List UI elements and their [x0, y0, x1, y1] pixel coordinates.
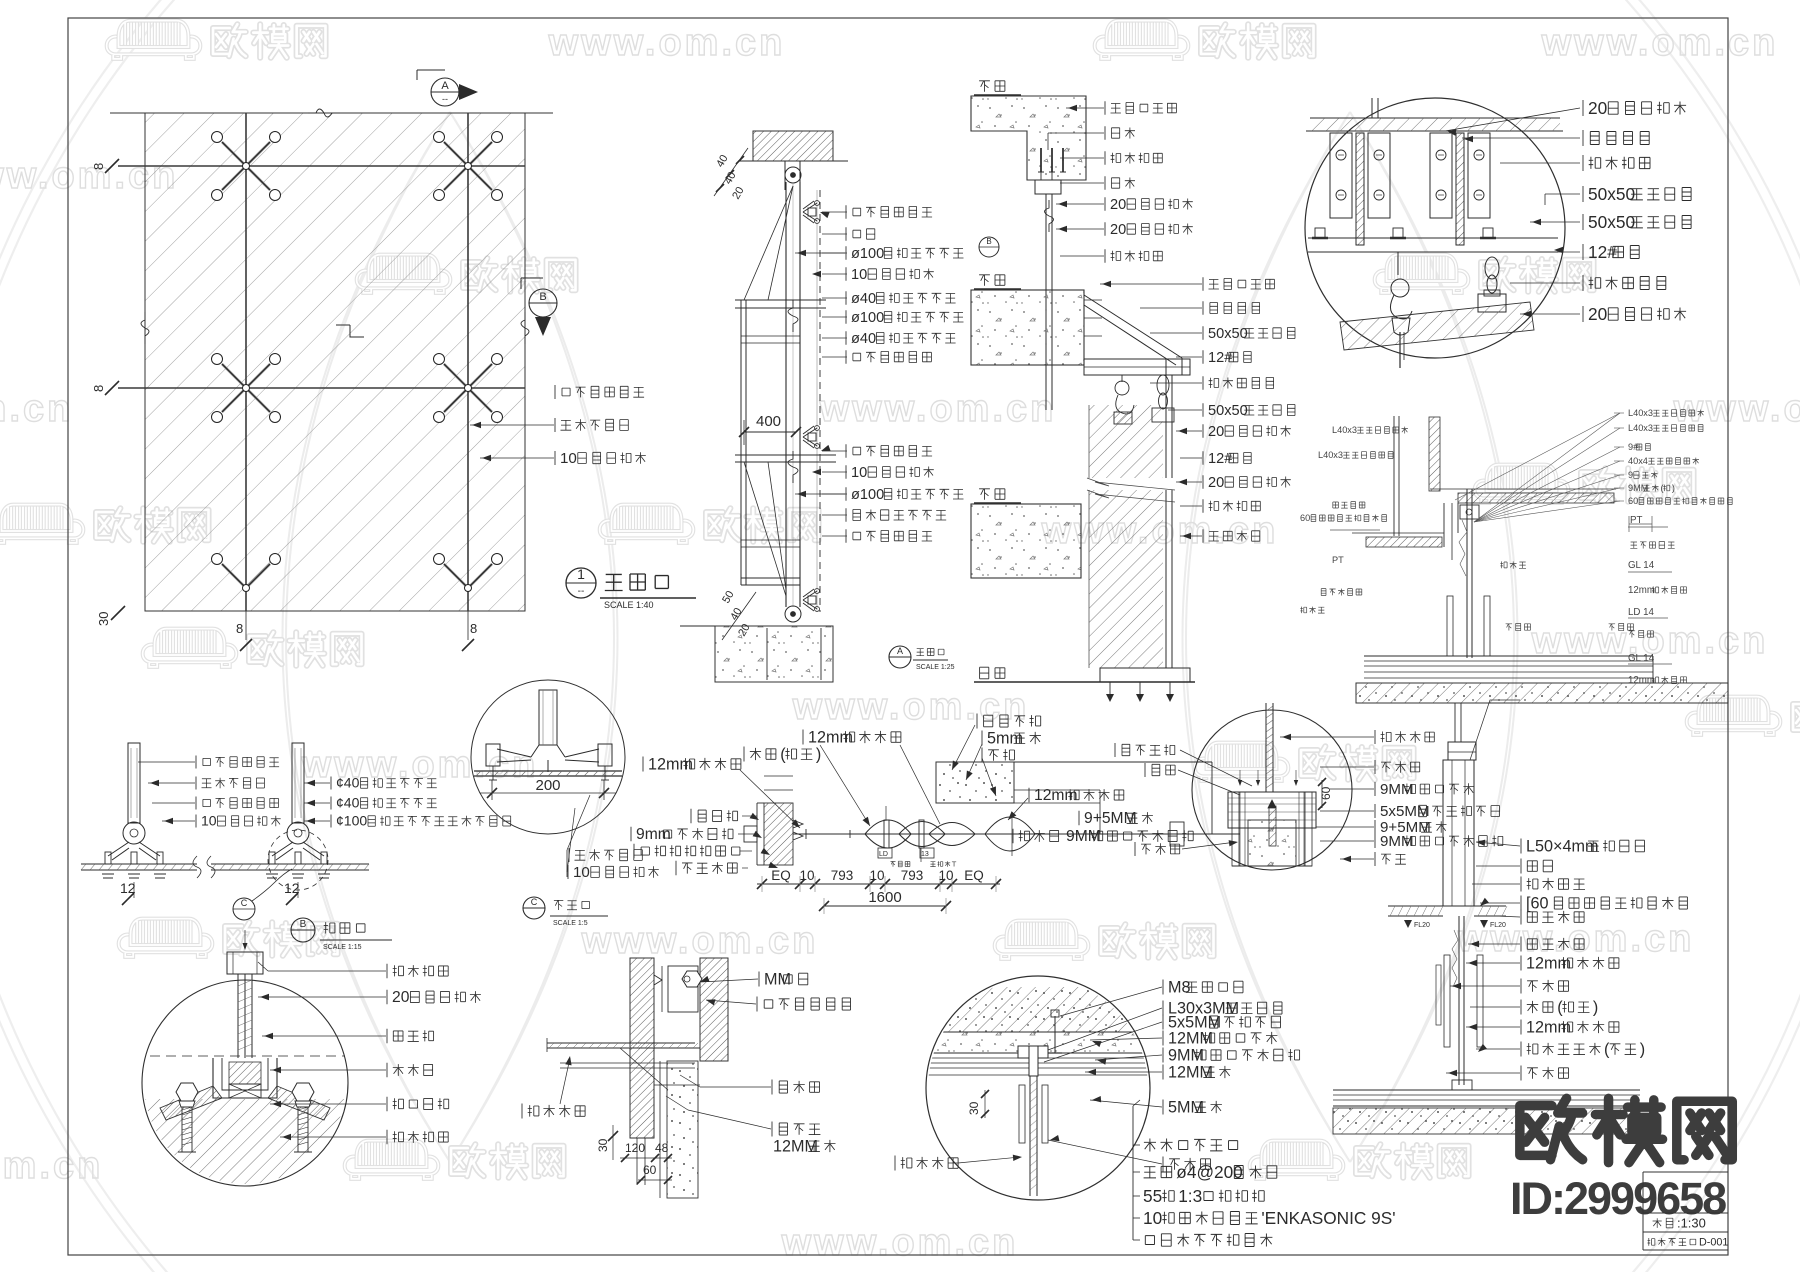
- svg-text:10: 10: [1143, 1208, 1162, 1228]
- svg-text:C: C: [241, 898, 248, 908]
- svg-text:12mm: 12mm: [1628, 675, 1655, 686]
- svg-text:30: 30: [96, 612, 111, 626]
- svg-text:FL20: FL20: [1490, 922, 1506, 929]
- svg-text:SCALE 1:25: SCALE 1:25: [916, 664, 955, 671]
- svg-text:55: 55: [1143, 1186, 1162, 1206]
- svg-text:ø4@200: ø4@200: [1176, 1162, 1242, 1182]
- svg-text:8: 8: [91, 385, 106, 392]
- svg-text:MM: MM: [764, 970, 791, 988]
- svg-text:ø40: ø40: [851, 291, 876, 307]
- svg-text:): ): [1672, 483, 1675, 493]
- svg-text:L40x3: L40x3: [1628, 423, 1653, 433]
- svg-text::1:30: :1:30: [1677, 1215, 1706, 1230]
- svg-text:L40x3: L40x3: [1628, 408, 1653, 418]
- svg-text:A: A: [897, 646, 903, 656]
- svg-text:ø100: ø100: [851, 310, 884, 326]
- svg-text:L40x3: L40x3: [1332, 425, 1357, 435]
- svg-text:(: (: [1604, 1040, 1610, 1058]
- svg-text:10: 10: [560, 450, 577, 467]
- svg-text:L50×4mm: L50×4mm: [1526, 837, 1598, 855]
- svg-text:ø100: ø100: [851, 487, 884, 503]
- svg-text:LD 14: LD 14: [1628, 607, 1655, 618]
- svg-text:9MM: 9MM: [1380, 781, 1414, 798]
- svg-text:SCALE 1:5: SCALE 1:5: [553, 920, 588, 927]
- svg-text:120: 120: [625, 1141, 645, 1155]
- svg-text:9mm: 9mm: [636, 826, 671, 843]
- svg-text:50x50: 50x50: [1588, 212, 1635, 232]
- svg-text:8: 8: [91, 163, 106, 170]
- svg-text:(: (: [1661, 483, 1664, 493]
- svg-text:200: 200: [535, 777, 560, 794]
- svg-text:www.om.cn: www.om.cn: [581, 920, 819, 962]
- svg-text:www.om.cn: www.om.cn: [1541, 22, 1779, 64]
- svg-text:L40x3: L40x3: [1318, 450, 1343, 460]
- svg-text:10: 10: [938, 868, 953, 883]
- svg-text:www.om.cn: www.om.cn: [0, 388, 73, 430]
- svg-text:1: 1: [577, 566, 585, 582]
- svg-text:PT: PT: [1630, 515, 1642, 526]
- svg-text:B: B: [539, 291, 546, 303]
- svg-text:GL 14: GL 14: [1628, 560, 1655, 571]
- svg-text:20: 20: [1110, 222, 1126, 238]
- svg-text:): ): [1640, 1040, 1645, 1058]
- svg-text:FL20: FL20: [1414, 922, 1430, 929]
- svg-text:12mm: 12mm: [808, 728, 853, 746]
- svg-text:20: 20: [1588, 98, 1607, 118]
- svg-text:10: 10: [869, 868, 884, 883]
- svg-text:www.om.cn: www.om.cn: [0, 1145, 103, 1187]
- svg-text:--: --: [578, 586, 585, 597]
- svg-text:50x50: 50x50: [1208, 326, 1248, 342]
- svg-text:10: 10: [201, 813, 217, 829]
- svg-text:50x50: 50x50: [1208, 403, 1248, 419]
- svg-text:60: 60: [1628, 496, 1638, 506]
- svg-text:9+5MM: 9+5MM: [1084, 810, 1137, 827]
- svg-text:LD: LD: [879, 851, 888, 858]
- svg-text:B: B: [986, 237, 991, 246]
- svg-text:8: 8: [236, 621, 243, 636]
- svg-text:EQ: EQ: [964, 868, 984, 883]
- svg-text:ø100: ø100: [851, 246, 884, 262]
- svg-text:www.om.cn: www.om.cn: [1673, 388, 1800, 430]
- svg-text:C: C: [531, 897, 538, 907]
- svg-text:13: 13: [921, 851, 929, 858]
- svg-text:20: 20: [1208, 475, 1224, 491]
- svg-text:60: 60: [643, 1163, 657, 1177]
- svg-text:30: 30: [967, 1101, 981, 1115]
- svg-text:9MM: 9MM: [1066, 828, 1101, 845]
- svg-text:50x50: 50x50: [1588, 184, 1635, 204]
- svg-text:12mm: 12mm: [1526, 1018, 1571, 1036]
- svg-text:8: 8: [470, 621, 477, 636]
- svg-text:www.om.cn: www.om.cn: [781, 1222, 1019, 1264]
- svg-text:B: B: [300, 919, 307, 930]
- svg-text:9MM: 9MM: [1168, 1046, 1204, 1064]
- svg-text:SCALE 1:40: SCALE 1:40: [604, 600, 654, 610]
- svg-text:1:3: 1:3: [1178, 1186, 1202, 1206]
- svg-text:400: 400: [756, 413, 781, 430]
- svg-text:--: --: [442, 94, 448, 104]
- svg-text:12mm: 12mm: [1628, 585, 1655, 596]
- svg-text:9: 9: [1628, 470, 1633, 480]
- svg-text:'ENKASONIC 9S': 'ENKASONIC 9S': [1261, 1208, 1395, 1228]
- svg-text:60: 60: [1319, 786, 1333, 800]
- svg-text:1600: 1600: [868, 889, 901, 906]
- svg-text:20: 20: [1208, 424, 1224, 440]
- svg-text:): ): [816, 745, 821, 763]
- svg-text:¢40: ¢40: [336, 775, 360, 791]
- svg-text:10: 10: [851, 267, 867, 283]
- svg-text:[60: [60: [1526, 894, 1549, 912]
- svg-text:10: 10: [851, 465, 867, 481]
- svg-text:10: 10: [799, 868, 814, 883]
- svg-text:20: 20: [392, 989, 410, 1006]
- svg-text:D-001: D-001: [1699, 1237, 1728, 1249]
- svg-text:40x4: 40x4: [1628, 456, 1648, 466]
- svg-text:60: 60: [1300, 513, 1310, 523]
- svg-text:GL 14: GL 14: [1628, 653, 1655, 664]
- svg-text:PT: PT: [1332, 555, 1344, 565]
- svg-text:¢100: ¢100: [336, 813, 367, 829]
- svg-text:¢40: ¢40: [336, 795, 360, 811]
- svg-text:(: (: [1557, 998, 1563, 1016]
- svg-text:A: A: [441, 80, 449, 92]
- svg-text:793: 793: [901, 868, 924, 883]
- svg-text:20: 20: [1110, 197, 1126, 213]
- svg-text:(: (: [780, 745, 786, 763]
- svg-text:ø40: ø40: [851, 331, 876, 347]
- svg-text:12mm: 12mm: [1526, 954, 1571, 972]
- svg-text:12MM: 12MM: [1168, 1029, 1213, 1047]
- svg-text:): ): [1593, 998, 1598, 1016]
- svg-text:12mm: 12mm: [648, 755, 693, 773]
- svg-text:793: 793: [831, 868, 854, 883]
- svg-text:9MM: 9MM: [1380, 833, 1414, 850]
- svg-text:48: 48: [655, 1141, 669, 1155]
- svg-text:www.om.cn: www.om.cn: [792, 686, 1030, 728]
- svg-text:www.om.cn: www.om.cn: [819, 388, 1057, 430]
- svg-text:www.om.cn: www.om.cn: [548, 22, 786, 64]
- svg-text:20: 20: [1588, 304, 1607, 324]
- svg-text:10: 10: [573, 864, 590, 881]
- svg-text:12mm: 12mm: [1034, 787, 1078, 804]
- svg-text:SCALE 1:15: SCALE 1:15: [323, 944, 362, 951]
- svg-text:EQ: EQ: [771, 868, 791, 883]
